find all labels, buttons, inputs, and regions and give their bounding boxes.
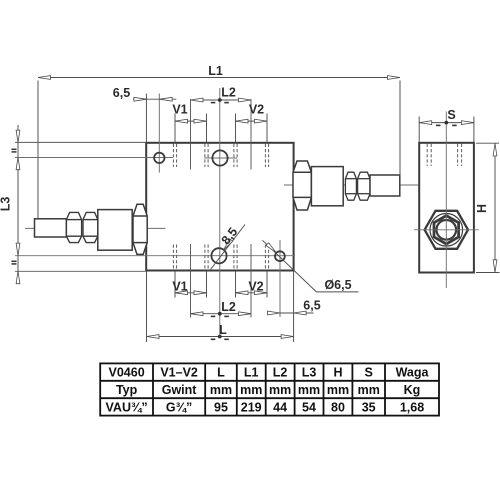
svg-text:V1–V2: V1–V2 [160, 366, 198, 380]
left fitting hex nut [133, 204, 147, 254]
svg-text:44: 44 [273, 400, 287, 414]
left fitting stem [35, 219, 67, 237]
hidden thread lines port V2 top [234, 144, 269, 167]
svg-text:mm: mm [210, 383, 232, 397]
svg-text:L2: L2 [273, 366, 288, 380]
centerline row 1 (top holes) [15, 157, 173, 159]
right fitting body [311, 167, 343, 206]
svg-text:VAU¾”: VAU¾” [106, 400, 148, 414]
svg-text:Ø6,5: Ø6,5 [324, 278, 351, 292]
svg-text:H: H [475, 204, 489, 213]
svg-text:Waga: Waga [396, 366, 430, 380]
svg-text:mm: mm [327, 383, 349, 397]
centerline row 2 (bottom holes) [15, 255, 295, 257]
svg-text:S: S [365, 366, 373, 380]
table units row [116, 383, 420, 397]
svg-text:mm: mm [358, 383, 380, 397]
centerline hole B horizontal [205, 157, 238, 159]
dimension S [419, 117, 474, 143]
svg-text:219: 219 [241, 400, 262, 414]
right fitting ring 1 [345, 172, 356, 200]
svg-text:95: 95 [214, 400, 228, 414]
dimension L [147, 271, 294, 342]
table header row [109, 366, 430, 380]
dimension V2 bottom [236, 271, 268, 298]
svg-text:G¾”: G¾” [166, 400, 192, 414]
side view vertical centerline [445, 112, 447, 289]
dimension 6,5 bottom [267, 312, 313, 314]
left dimension column line [17, 125, 19, 284]
svg-text:Gwint: Gwint [162, 383, 198, 397]
vertical centerline hole A [158, 94, 160, 173]
svg-text:L: L [219, 323, 227, 337]
svg-text:V2: V2 [248, 280, 263, 294]
svg-text:mm: mm [240, 383, 262, 397]
svg-text:Typ: Typ [116, 383, 138, 397]
svg-text:L3: L3 [302, 366, 317, 380]
dimension 6,5 top [133, 94, 176, 143]
leader 8,5 [209, 225, 245, 272]
svg-text:L2: L2 [221, 86, 236, 100]
vertical centerline hole D [279, 240, 281, 317]
svg-text:L: L [217, 366, 225, 380]
dimension V1 bottom [175, 271, 207, 298]
table grid [100, 363, 439, 415]
dimension L1 line [38, 78, 400, 219]
dimension H [476, 143, 500, 272]
side view inner circle [437, 220, 457, 240]
table values row [106, 400, 425, 414]
svg-text:V1: V1 [172, 280, 187, 294]
side view hex socket [434, 216, 459, 244]
svg-text:L3: L3 [0, 197, 13, 212]
dimension V2 top [236, 114, 268, 144]
hidden hole lines side view [427, 144, 461, 166]
dimension V1 top [175, 114, 207, 144]
svg-text:S: S [447, 108, 455, 122]
dimension L2 bottom [191, 313, 252, 315]
right fitting stem [370, 175, 400, 196]
hidden thread lines port V1 top [173, 144, 208, 167]
centerline V2 [250, 99, 252, 170]
hole C bottom-center [211, 248, 226, 263]
right fitting ring 2 [358, 172, 370, 200]
hole D bottom-right [275, 251, 285, 261]
svg-text:Kg: Kg [404, 383, 421, 397]
hole A top-left [154, 153, 164, 163]
svg-text:L1: L1 [244, 366, 259, 380]
vertical centerline center [219, 88, 221, 338]
svg-text:L2: L2 [221, 300, 236, 314]
svg-text:6,5: 6,5 [113, 86, 130, 100]
hidden thread lines port V2 bottom [234, 245, 269, 271]
hidden thread lines port V1 bottom [173, 245, 208, 271]
hole B top-center [212, 150, 227, 165]
side view block [419, 143, 474, 273]
svg-text:V1: V1 [172, 103, 187, 117]
side view nut chamfer circle [430, 214, 463, 247]
side view horizontal centerline [414, 229, 479, 231]
equality mark top left [12, 148, 17, 150]
svg-text:6,5: 6,5 [303, 299, 320, 313]
svg-text:35: 35 [362, 400, 376, 414]
svg-text:V2: V2 [249, 103, 264, 117]
centerline left fitting [25, 227, 166, 229]
main valve block (front view) [146, 143, 293, 271]
centerline right fitting [284, 184, 419, 186]
svg-text:54: 54 [302, 400, 316, 414]
svg-text:80: 80 [331, 400, 345, 414]
left fitting body [98, 210, 132, 251]
centerline V1 [190, 99, 192, 170]
svg-text:L1: L1 [208, 64, 223, 78]
right fitting hex nut [293, 161, 311, 210]
leader diameter 6,5 [263, 240, 359, 292]
svg-text:V0460: V0460 [109, 366, 145, 380]
left fitting ring 2 [83, 212, 98, 242]
left fitting ring 1 [66, 212, 81, 242]
svg-text:1,68: 1,68 [400, 400, 424, 414]
left extension lines [15, 142, 146, 271]
dimension L2 top [191, 99, 252, 101]
svg-text:H: H [333, 366, 342, 380]
equality mark bottom left [12, 260, 17, 262]
svg-text:mm: mm [298, 383, 320, 397]
svg-text:mm: mm [269, 383, 291, 397]
side view hex nut outer [425, 211, 468, 249]
